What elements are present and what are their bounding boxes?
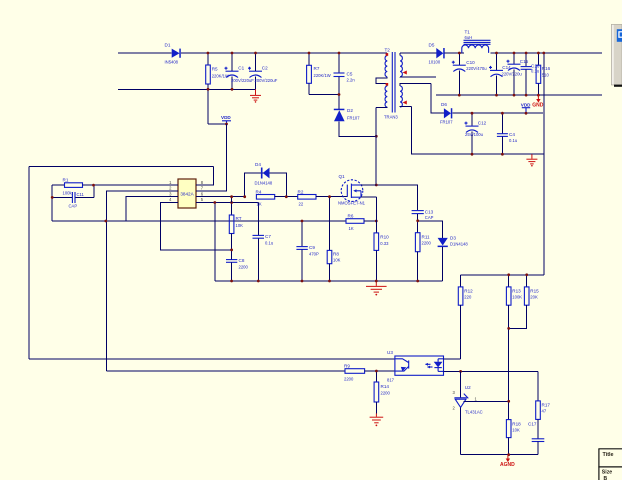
svg-text:U3: U3 [387, 350, 393, 355]
resistor R5 [206, 53, 229, 124]
internal LED [434, 362, 443, 368]
capacitor C4 [497, 113, 518, 154]
svg-text:D6: D6 [441, 102, 447, 107]
svg-text:R4: R4 [256, 189, 262, 194]
svg-text:Q1: Q1 [339, 174, 346, 179]
capacitor C15 [507, 53, 529, 95]
resistor RT [229, 203, 243, 250]
wire drain column [375, 108, 377, 185]
svg-text:C5: C5 [347, 72, 353, 77]
diode D3 [418, 221, 469, 281]
svg-text:10K: 10K [236, 223, 244, 228]
transistor Q1 [338, 174, 366, 206]
secondary pin bottom [400, 106, 412, 109]
svg-text:TL431AC: TL431AC [465, 410, 483, 415]
svg-text:R10: R10 [380, 235, 389, 240]
wire pin5 line [203, 202, 258, 204]
svg-text:47: 47 [542, 409, 547, 414]
svg-text:510: 510 [542, 73, 550, 78]
wire source column [375, 197, 377, 233]
svg-text:1K: 1K [257, 202, 262, 207]
wire pin8 to feedback loop [203, 167, 213, 186]
op-amp U1 UC3842A chip body [169, 179, 204, 208]
svg-text:T2: T2 [385, 48, 391, 53]
svg-text:1K: 1K [349, 226, 354, 231]
svg-text:220V/220u: 220V/220u [502, 72, 523, 77]
svg-text:C11: C11 [77, 192, 85, 197]
wire drain to snubber2 [376, 185, 417, 210]
power port VDD [221, 115, 231, 124]
polarity dot primary [386, 53, 389, 56]
svg-text:R2: R2 [298, 189, 304, 194]
svg-text:220: 220 [464, 295, 472, 300]
inductor T1 [462, 30, 602, 54]
wire right bus column [543, 53, 545, 275]
svg-text:B: B [604, 476, 608, 480]
svg-text:817: 817 [387, 378, 395, 383]
core lines [391, 52, 393, 113]
wire pin6 output [203, 196, 245, 198]
primary mid jog [376, 77, 387, 86]
resistor R1 [52, 178, 172, 196]
capacitor C17 [528, 422, 544, 455]
svg-text:RT: RT [236, 216, 242, 221]
resistor R8 [327, 197, 340, 281]
wire analog ground bus [461, 454, 538, 456]
pin 2 [172, 190, 178, 192]
svg-text:470P: 470P [309, 252, 319, 257]
svg-text:0.1u: 0.1u [509, 138, 518, 143]
svg-text:100k: 100k [63, 191, 73, 196]
svg-text:C9: C9 [309, 245, 315, 250]
wire snubber bottom [309, 94, 339, 96]
diode D4 [245, 162, 287, 197]
svg-text:C2: C2 [262, 66, 268, 71]
svg-text:0.33: 0.33 [380, 241, 389, 246]
svg-text:2200: 2200 [422, 241, 432, 246]
wire aux tap to D6 [431, 83, 444, 113]
svg-text:D2: D2 [347, 108, 353, 113]
resistor R2 [275, 189, 348, 206]
svg-text:2200: 2200 [344, 376, 354, 381]
svg-text:10K: 10K [512, 428, 520, 433]
resistor R15 [509, 275, 539, 329]
title block [598, 449, 622, 480]
wire TL431 anode [460, 408, 462, 455]
svg-text:10100: 10100 [429, 60, 441, 65]
svg-text:D4: D4 [255, 162, 261, 167]
resistor R14 [374, 371, 390, 413]
primary pin top [386, 53, 388, 56]
svg-text:R17: R17 [542, 403, 551, 408]
svg-text:R1: R1 [63, 178, 69, 183]
svg-text:FR107: FR107 [347, 116, 360, 121]
capacitor C9 [296, 221, 319, 281]
svg-text:R11: R11 [422, 235, 431, 240]
capacitor C8 [226, 250, 248, 281]
svg-text:TRAN3: TRAN3 [384, 115, 398, 120]
pin 8 [196, 184, 203, 186]
svg-text:100K: 100K [512, 295, 522, 300]
wire VDD startup [208, 123, 227, 125]
svg-text:2200: 2200 [381, 391, 391, 396]
capacitor C16 [521, 53, 540, 95]
pin 5 [196, 202, 203, 204]
wire feedback loop left [28, 167, 30, 359]
svg-text:R13: R13 [512, 289, 521, 294]
svg-text:R9: R9 [344, 363, 350, 368]
svg-text:R7: R7 [314, 66, 320, 71]
wire pin2 feedback column [107, 191, 172, 371]
svg-text:R18: R18 [512, 422, 521, 427]
wire AC line bottom [118, 88, 256, 90]
ground R14 [370, 413, 384, 426]
optocoupler U3 [387, 350, 444, 383]
junction dots gate [230, 195, 233, 198]
pin 3 [172, 196, 178, 198]
svg-text:C10: C10 [466, 60, 475, 65]
secondary pin top [399, 53, 401, 56]
diode D2 [334, 95, 377, 137]
resistor R13 [506, 275, 522, 329]
resistor R17 [536, 371, 551, 438]
svg-text:C7: C7 [265, 234, 271, 239]
wire feedback loop bottom to optocoupler [29, 358, 395, 360]
svg-text:220K/1W: 220K/1W [314, 73, 331, 78]
svg-text:R6: R6 [348, 213, 354, 218]
wire VDD aux rail [452, 112, 543, 114]
wire opto LED cathode [444, 370, 539, 372]
wire DC bus top [181, 52, 387, 54]
ground primary [366, 281, 387, 296]
secondary jog 1 [400, 76, 436, 78]
svg-text:D1: D1 [165, 43, 171, 48]
diode D6 [440, 102, 453, 125]
resistor R7 [307, 53, 331, 95]
resistor R18 [506, 420, 521, 455]
resistor R4 [256, 189, 275, 206]
polarity mark secondary 1 [403, 71, 407, 75]
power port AGND [500, 455, 515, 468]
svg-text:3842A: 3842A [180, 192, 194, 197]
secondary winding top [400, 56, 402, 77]
wire AC line top [118, 52, 172, 54]
primary winding top [385, 56, 387, 77]
wire pin5 ground column [214, 203, 216, 282]
svg-text:R12: R12 [464, 289, 473, 294]
capacitor C1 [225, 53, 255, 89]
wire pin6 branch down [231, 197, 233, 203]
svg-text:U2: U2 [465, 385, 471, 390]
capacitor C7 [253, 203, 274, 282]
diode D1 [165, 43, 181, 65]
wire output return rail [436, 94, 602, 96]
svg-text:6uH: 6uH [465, 35, 473, 40]
svg-text:D5: D5 [429, 43, 435, 48]
wire primary ground bus [215, 280, 443, 282]
ground aux [526, 154, 537, 166]
junction dots controller [92, 184, 95, 187]
svg-text:R8: R8 [333, 252, 339, 257]
svg-text:AGND: AGND [500, 462, 515, 468]
capacitor C2 [248, 53, 278, 89]
capacitor C14 [489, 53, 522, 95]
svg-text:10K: 10K [333, 258, 341, 263]
resistor R6 [339, 213, 376, 231]
svg-text:C12: C12 [478, 121, 487, 126]
power port VDD aux [521, 102, 531, 113]
svg-text:R5: R5 [212, 67, 218, 72]
svg-text:Size: Size [602, 469, 612, 475]
polarity mark secondary 2 [403, 101, 407, 105]
floating panel [611, 24, 622, 86]
wire pin4 [161, 203, 232, 250]
svg-text:IN5408: IN5408 [165, 60, 179, 65]
light arrows [426, 363, 431, 365]
wire pin3 current sense [126, 197, 172, 221]
pin 4 [172, 202, 178, 204]
svg-text:R14: R14 [381, 384, 390, 389]
svg-text:CAP: CAP [69, 204, 78, 209]
wire output rail [445, 52, 462, 54]
svg-text:Title: Title [603, 452, 614, 458]
wire pin7 to VDD column [203, 124, 227, 191]
wire R1/C11 loop [51, 185, 53, 221]
capacitor C11 [69, 192, 85, 209]
polarity dot primary 2 [386, 83, 389, 86]
svg-text:2.2n: 2.2n [347, 78, 356, 83]
wire feedback loop top [29, 166, 214, 168]
wire source stub [361, 196, 376, 198]
secondary winding bottom [400, 86, 402, 107]
capacitor C13 [412, 209, 434, 221]
capacitor C10 [452, 53, 487, 95]
svg-text:C4: C4 [509, 132, 515, 137]
junction dots output rails [458, 52, 461, 55]
internal transistor [408, 360, 410, 368]
wire drain stub [361, 184, 376, 186]
svg-text:22: 22 [299, 202, 304, 207]
resistor R11 [415, 221, 431, 281]
svg-text:R16: R16 [542, 66, 551, 71]
svg-text:0.1u: 0.1u [265, 241, 274, 246]
pin 1 [172, 184, 178, 186]
svg-text:CAP: CAP [425, 215, 434, 220]
transistor U2 TL431 [453, 385, 483, 415]
resistor R9 [107, 363, 395, 381]
svg-text:2200: 2200 [239, 265, 249, 270]
svg-text:D1N4148: D1N4148 [450, 242, 468, 247]
capacitor C12 [465, 113, 487, 154]
secondary jog 2 [400, 83, 431, 86]
svg-text:VDD: VDD [221, 115, 231, 120]
svg-text:200V/220uF: 200V/220uF [231, 78, 254, 83]
svg-text:R15: R15 [530, 289, 539, 294]
svg-text:C8: C8 [239, 258, 245, 263]
resistor R12 [458, 275, 473, 359]
svg-text:220V/470u: 220V/470u [466, 66, 487, 71]
svg-text:200V/220uF: 200V/220uF [255, 78, 278, 83]
svg-text:VDD: VDD [521, 102, 531, 107]
resistor R10 [374, 233, 389, 281]
capacitor C5 [334, 53, 356, 95]
ground input [250, 89, 261, 102]
wire isense line [52, 220, 346, 222]
wire TL431 cathode [460, 371, 462, 398]
wire secondary to D5 [400, 52, 436, 54]
junction dots bus [230, 280, 233, 283]
resistor R16 [536, 53, 551, 95]
power port GND red arrow [532, 95, 544, 108]
svg-text:C17: C17 [528, 422, 537, 427]
pin 7 [196, 190, 203, 192]
svg-text:20K: 20K [530, 295, 538, 300]
svg-text:GND: GND [532, 102, 544, 108]
svg-text:0.1u: 0.1u [531, 69, 540, 74]
svg-text:C13: C13 [425, 209, 434, 214]
primary pin bottom [376, 106, 387, 109]
primary winding bottom [385, 86, 387, 107]
svg-text:D1N4148: D1N4148 [255, 181, 273, 186]
wire divider row [461, 274, 544, 276]
svg-text:C15: C15 [520, 59, 529, 64]
wire TL431 ref [464, 400, 509, 402]
svg-text:C1: C1 [238, 66, 244, 71]
wire divider column [508, 328, 510, 419]
diode D5 [429, 43, 445, 65]
pin 6 [196, 196, 203, 198]
svg-text:T1: T1 [465, 30, 471, 35]
svg-text:D3: D3 [450, 236, 456, 241]
wire opto collector up [444, 358, 461, 360]
wire aux return bus [412, 107, 544, 155]
svg-text:NMOSFET-N1: NMOSFET-N1 [338, 201, 366, 206]
junction dots input rails [207, 52, 210, 55]
svg-text:25V/100u: 25V/100u [465, 132, 484, 137]
svg-text:FR107: FR107 [440, 120, 453, 125]
